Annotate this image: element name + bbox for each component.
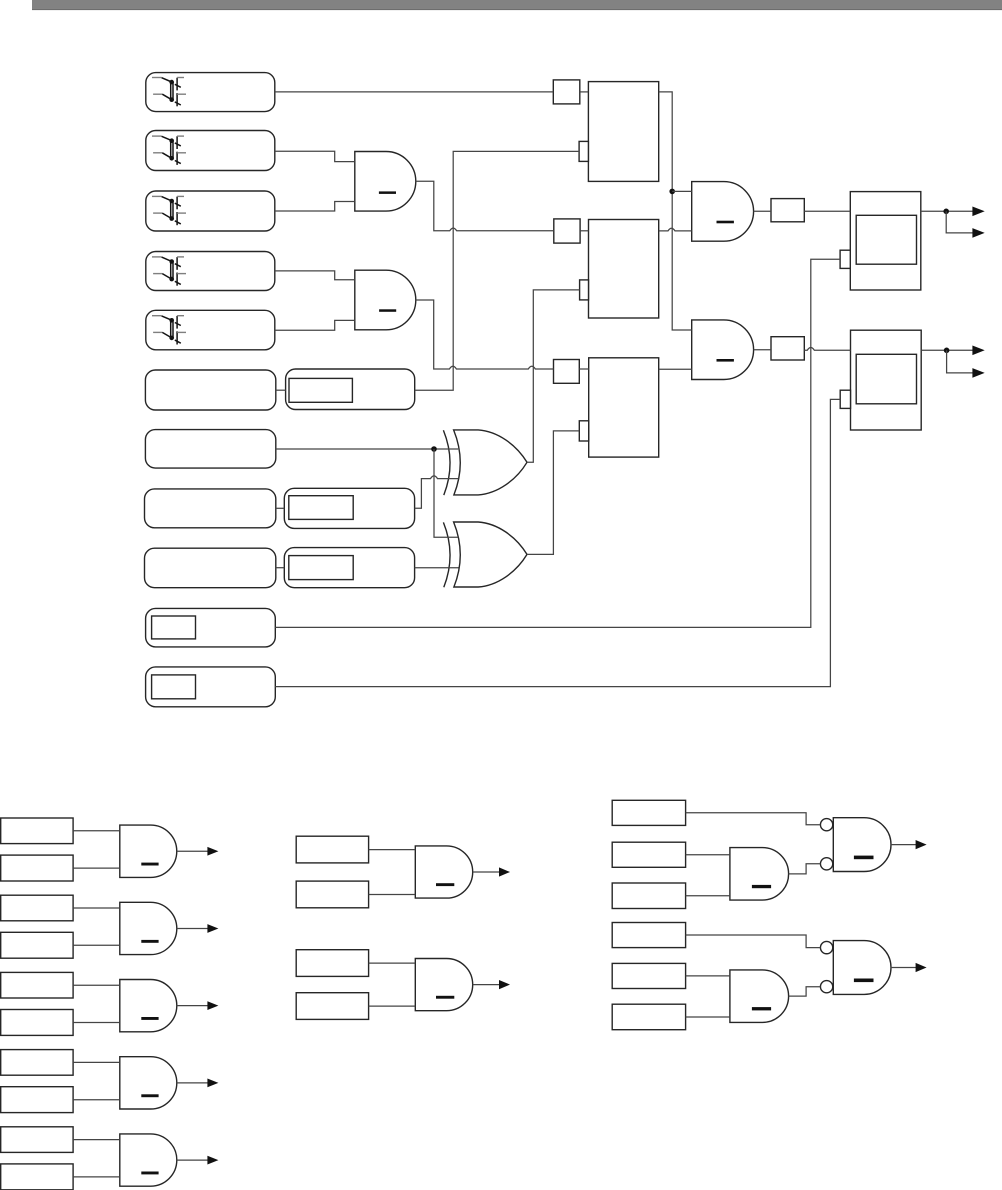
input reg A3a bbox=[1, 972, 73, 998]
input reg M1a bbox=[296, 836, 368, 863]
input reg R2b bbox=[612, 963, 685, 988]
arrow M1 out bbox=[499, 867, 510, 876]
switch input S5 bbox=[146, 310, 275, 350]
junction dot D1 output bbox=[943, 209, 949, 215]
wire square to display D2 (hop over clock riser) bbox=[804, 348, 850, 351]
wire U5 port to U5 bbox=[580, 91, 589, 93]
wire R1c to RI1 bottom bbox=[686, 895, 730, 897]
input box B6 bbox=[145, 370, 275, 410]
wire S1 to U5 port bbox=[275, 91, 554, 93]
clock CLK1 bbox=[146, 608, 276, 647]
wire U5 output down to U9 top input bbox=[659, 92, 692, 330]
wire L1 output bbox=[177, 850, 208, 852]
L5 label dash bbox=[141, 1172, 158, 1175]
U5 input port square bbox=[553, 80, 580, 104]
L3 label dash bbox=[141, 1017, 158, 1020]
AND gate U1 bbox=[355, 152, 416, 212]
switch input S2 bbox=[146, 131, 275, 171]
wire M2a to gate bbox=[369, 962, 416, 964]
display D2 bbox=[851, 330, 922, 430]
junction dot D2 output bbox=[944, 348, 950, 354]
title bar bbox=[32, 0, 1002, 9]
U2 label dash bbox=[379, 309, 396, 312]
U6 input port square bbox=[554, 219, 580, 243]
arrow L4 out bbox=[207, 1079, 218, 1088]
flip-flop block U7 bbox=[589, 358, 659, 457]
wire U6 port to U6 bbox=[580, 230, 588, 232]
input reg A1a bbox=[1, 818, 73, 844]
wire B6 to keypad K1 bbox=[276, 389, 286, 391]
wire L4 output bbox=[177, 1082, 208, 1084]
input reg M2b bbox=[296, 993, 368, 1020]
input reg A5b bbox=[1, 1164, 73, 1190]
wire square to display D1 bbox=[804, 210, 850, 212]
wire S4 to U2 top input bbox=[275, 271, 355, 280]
L4 label dash bbox=[141, 1094, 158, 1097]
arrow D2 out 2 bbox=[972, 368, 984, 378]
wire M2b to gate bbox=[369, 1005, 416, 1007]
D1 side port bbox=[840, 250, 850, 268]
M2 label dash bbox=[436, 996, 454, 999]
switch input S4 bbox=[146, 252, 275, 291]
wire CLK2 to D2 side port bbox=[275, 399, 840, 686]
wire U7 port to U7 bbox=[579, 368, 588, 370]
wire M1b to gate bbox=[369, 894, 416, 896]
wire CLK1 to D1 side port bbox=[275, 259, 840, 627]
wire L2 output bbox=[177, 928, 208, 930]
switch input S3 bbox=[146, 191, 275, 231]
flip-flop block U5 bbox=[588, 82, 658, 182]
RB2 input bubble 2 bbox=[820, 981, 832, 993]
junction dot U5 output bbox=[669, 189, 675, 195]
wire A5a to L5 bbox=[73, 1139, 120, 1141]
RB1 label dash bbox=[854, 856, 874, 860]
AND gate L2 bbox=[120, 902, 177, 954]
wire A2b to L2 bbox=[73, 944, 120, 946]
XOR gate U3 bbox=[454, 430, 527, 495]
junction dot on B7 wire bbox=[431, 446, 437, 452]
input reg R1b bbox=[612, 842, 685, 867]
keypad K3 bbox=[284, 548, 414, 588]
wire A4b to L4 bbox=[73, 1099, 120, 1101]
wire D2 branch output bbox=[947, 350, 973, 373]
U8 label dash bbox=[717, 221, 734, 224]
AND gate L1 bbox=[120, 825, 177, 877]
display D1 bbox=[850, 192, 921, 290]
wire U8 to output square bbox=[754, 210, 771, 212]
U5 side port bbox=[579, 141, 588, 161]
wire D1 output bbox=[921, 210, 973, 212]
keypad K1 bbox=[286, 369, 415, 410]
AND gate RB2 (inverted inputs) bbox=[833, 941, 891, 995]
RB2 label dash bbox=[854, 979, 874, 983]
RB1 input bubble 1 bbox=[820, 819, 832, 831]
U7 side port bbox=[579, 421, 588, 441]
input reg R1c bbox=[612, 883, 685, 909]
wire A2a to L2 bbox=[73, 907, 120, 909]
U9 label dash bbox=[717, 359, 734, 362]
XOR gate U4 leading arc bbox=[443, 522, 450, 587]
input box B7 bbox=[145, 430, 275, 469]
AND gate U2 bbox=[355, 270, 416, 330]
wire D2 output bbox=[921, 349, 973, 351]
input reg A4b bbox=[1, 1087, 73, 1113]
wire branch to U8 top input bbox=[672, 190, 692, 192]
wire R1a to bubble 1 bbox=[686, 813, 821, 825]
arrow L1 out bbox=[207, 847, 218, 856]
input reg A5a bbox=[1, 1127, 73, 1153]
arrow L2 out bbox=[207, 924, 218, 933]
wire L3 output bbox=[177, 1005, 208, 1007]
wire A1b to L1 bbox=[73, 867, 120, 869]
RB1 input bubble 2 bbox=[820, 858, 832, 870]
arrow M2 out bbox=[499, 980, 510, 989]
AND gate L4 bbox=[120, 1057, 177, 1109]
AND gate RI2 (inner) bbox=[730, 970, 789, 1023]
wire K2 to XOR U3 bottom input (hop over branch riser) bbox=[415, 476, 459, 508]
input reg A1b bbox=[1, 855, 73, 881]
wire RB1 output bbox=[891, 844, 917, 846]
wire B9 to keypad K3 bbox=[276, 567, 285, 569]
wire S2 to U1 top input bbox=[275, 151, 355, 161]
switch input S1 bbox=[146, 73, 275, 112]
wire XOR U4 output up to U7 side port bbox=[527, 431, 579, 555]
AND gate M1 bbox=[415, 846, 472, 898]
title bar bottom edge bbox=[32, 9, 1002, 11]
U7 input port square bbox=[554, 360, 580, 384]
wire U2 output to U7 port (hops over risers) bbox=[416, 300, 554, 369]
AND gate RI1 (inner) bbox=[730, 848, 789, 901]
arrow L5 out bbox=[207, 1156, 218, 1165]
wire R2a to bubble 1 bbox=[686, 935, 821, 948]
wire branch down to XOR U4 top input bbox=[434, 449, 458, 537]
wire A4a to L4 bbox=[73, 1061, 120, 1063]
U6 side port bbox=[580, 280, 589, 300]
wire M1a to gate bbox=[369, 849, 416, 851]
flip-flop block U6 bbox=[589, 220, 659, 319]
wire K1 up to U5 side port bbox=[415, 151, 579, 390]
input reg A3b bbox=[1, 1010, 73, 1036]
U8 output square bbox=[771, 199, 804, 222]
wire S3 to U1 bottom input bbox=[275, 202, 355, 212]
U9 output square bbox=[771, 337, 804, 360]
wire B7 to XOR U3 top input bbox=[276, 448, 458, 450]
wire M1 output bbox=[473, 871, 500, 873]
input reg A2a bbox=[1, 895, 73, 921]
RI1 label dash bbox=[752, 885, 771, 888]
XOR gate U4 bbox=[454, 522, 527, 587]
AND gate U9 bbox=[692, 320, 754, 380]
arrow RB1 out bbox=[916, 840, 927, 849]
wire RB2 output bbox=[891, 967, 917, 969]
input reg M1b bbox=[296, 881, 368, 908]
RI2 label dash bbox=[752, 1007, 771, 1010]
input reg M2a bbox=[296, 950, 368, 977]
input reg R2c bbox=[612, 1004, 685, 1029]
RB2 input bubble 1 bbox=[820, 941, 832, 953]
AND gate L3 bbox=[120, 980, 177, 1032]
wire R2c to RI2 bottom bbox=[686, 1016, 730, 1018]
wire A1a to L1 bbox=[73, 830, 120, 832]
keypad K2 bbox=[284, 488, 414, 528]
wire R1b to RI1 top bbox=[686, 854, 730, 856]
M1 label dash bbox=[436, 883, 454, 886]
wire U1 output to U6 port (hop over keypad riser) bbox=[416, 181, 554, 231]
wire A5b to L5 bbox=[73, 1176, 120, 1178]
wire XOR U3 output up to U6 side port bbox=[527, 290, 580, 462]
wire RI1 output to bubble 2 bbox=[789, 864, 821, 874]
input reg A4a bbox=[1, 1050, 73, 1076]
U1 label dash bbox=[379, 191, 396, 194]
arrow D1 out 2 bbox=[972, 228, 984, 238]
AND gate L5 bbox=[120, 1134, 177, 1186]
wire RI2 output to bubble 2 bbox=[789, 987, 821, 996]
wire S5 to U2 bottom input bbox=[275, 320, 355, 330]
L1 label dash bbox=[141, 863, 158, 866]
wire D1 branch output bbox=[946, 211, 973, 233]
arrow RB2 out bbox=[916, 963, 927, 972]
wire U9 to output square bbox=[754, 349, 771, 351]
L2 label dash bbox=[141, 940, 158, 943]
wire U7 output to U9 bottom input bbox=[659, 368, 692, 370]
input box B8 bbox=[145, 489, 276, 528]
wire K3 to XOR U4 bottom input bbox=[415, 567, 459, 569]
input reg R1a bbox=[612, 800, 685, 825]
AND gate RB1 (inverted inputs) bbox=[833, 818, 891, 872]
arrow D1 out 1 bbox=[972, 207, 984, 217]
wire B8 to keypad K2 bbox=[276, 507, 285, 509]
wire M2 output bbox=[473, 984, 500, 986]
clock CLK2 bbox=[146, 667, 276, 707]
D2 side port bbox=[840, 390, 850, 408]
wire R2b to RI2 top bbox=[686, 975, 730, 977]
AND gate U8 bbox=[692, 182, 754, 242]
input reg A2b bbox=[1, 932, 73, 958]
input reg R2a bbox=[612, 923, 685, 948]
XOR gate U3 leading arc bbox=[443, 430, 450, 495]
wire U6 output to U8 bottom input (hop) bbox=[659, 228, 692, 231]
wire L5 output bbox=[177, 1159, 208, 1161]
wire A3b to L3 bbox=[73, 1022, 120, 1024]
arrow D2 out 1 bbox=[972, 346, 984, 356]
input box B9 bbox=[145, 548, 276, 588]
arrow L3 out bbox=[207, 1001, 218, 1010]
wire A3a to L3 bbox=[73, 984, 120, 986]
AND gate M2 bbox=[415, 959, 472, 1011]
